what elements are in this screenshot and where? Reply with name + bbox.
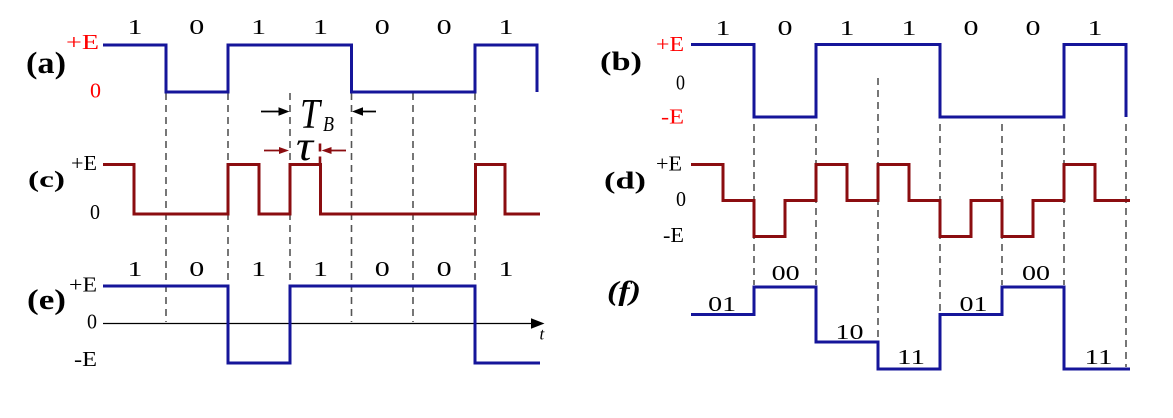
svg-text:1: 1	[313, 257, 328, 281]
wire dash x228	[227, 93, 229, 322]
svg-text:1: 1	[499, 15, 514, 39]
svg-text:+E: +E	[656, 152, 682, 176]
wire dash x878	[877, 78, 879, 340]
svg-text:0: 0	[437, 15, 452, 39]
svg-text:(c): (c)	[28, 167, 65, 192]
row (b) bit labels	[716, 16, 1103, 40]
dibit labels (f)	[708, 261, 1112, 369]
tau annotation arrows (dark red)	[264, 144, 346, 168]
waveform (c) unipolar RZ	[103, 165, 540, 215]
svg-text:0: 0	[676, 187, 686, 211]
svg-text:+E: +E	[71, 151, 97, 175]
svg-text:t: t	[540, 325, 546, 344]
svg-text:0: 0	[964, 16, 979, 40]
svg-text:B: B	[323, 112, 334, 136]
red dashed tick at pulse end	[319, 144, 322, 168]
svg-text:1: 1	[1088, 16, 1103, 40]
svg-text:-E: -E	[74, 347, 97, 371]
svg-text:(a): (a)	[26, 45, 66, 80]
wire dash x290	[289, 93, 291, 322]
wire dash x475	[474, 93, 476, 322]
svg-text:01: 01	[960, 292, 988, 316]
wire dash x166	[165, 93, 167, 322]
svg-text:0: 0	[87, 310, 97, 334]
svg-text:0: 0	[375, 15, 390, 39]
svg-text:1: 1	[716, 16, 731, 40]
svg-text:(f): (f)	[607, 276, 641, 306]
wire dash x754	[753, 124, 755, 285]
svg-text:-E: -E	[663, 223, 684, 247]
svg-text:0: 0	[90, 79, 101, 103]
svg-text:+E: +E	[656, 32, 684, 56]
wire dash x1064	[1063, 124, 1065, 285]
svg-text:11: 11	[897, 345, 925, 369]
waveform (e) NRZI polar	[103, 286, 540, 363]
time axis (e)	[103, 318, 545, 328]
svg-text:0: 0	[676, 71, 685, 95]
svg-text:00: 00	[772, 261, 800, 285]
dashed bit boundaries (left)	[166, 93, 475, 322]
svg-text:1: 1	[251, 15, 266, 39]
svg-text:0: 0	[437, 257, 452, 281]
svg-text:0: 0	[375, 257, 390, 281]
svg-text:0: 0	[90, 200, 100, 224]
T_B annotation arrows	[261, 107, 376, 115]
svg-text:0: 0	[778, 16, 793, 40]
svg-text:1: 1	[902, 16, 917, 40]
svg-text:11: 11	[1085, 345, 1113, 369]
svg-text:(b): (b)	[600, 47, 642, 76]
svg-text:1: 1	[313, 15, 328, 39]
svg-text:1: 1	[251, 257, 266, 281]
svg-text:1: 1	[128, 257, 143, 281]
dashed bit boundaries (right)	[754, 78, 1126, 367]
waveform (f) quaternary 2B1Q	[691, 287, 1130, 369]
waveform (a) unipolar NRZ	[103, 45, 537, 92]
svg-text:1: 1	[840, 16, 855, 40]
wire dash x413	[412, 93, 414, 322]
svg-text:(e): (e)	[27, 284, 66, 316]
svg-text:10: 10	[836, 320, 864, 344]
svg-text:1: 1	[128, 15, 143, 39]
row (e) bit labels	[128, 257, 514, 281]
wire dash x816	[815, 124, 817, 285]
wire dash x351	[351, 93, 353, 322]
waveform (d) bipolar RZ	[691, 165, 1130, 237]
svg-text:0: 0	[189, 257, 204, 281]
svg-text:+E: +E	[66, 30, 99, 54]
svg-text:01: 01	[708, 292, 736, 316]
svg-text:1: 1	[499, 257, 514, 281]
svg-text:00: 00	[1022, 261, 1050, 285]
svg-text:0: 0	[1026, 16, 1041, 40]
svg-text:(d): (d)	[604, 169, 646, 195]
row (a) bit labels	[128, 15, 514, 39]
svg-text:-E: -E	[661, 105, 684, 129]
wire dash x1126	[1125, 124, 1127, 367]
svg-text:+E: +E	[69, 273, 97, 297]
svg-text:0: 0	[189, 15, 204, 39]
waveform (b) polar NRZ	[691, 45, 1126, 118]
wire dash x940	[939, 124, 941, 313]
wire dash x1002	[1001, 124, 1003, 285]
